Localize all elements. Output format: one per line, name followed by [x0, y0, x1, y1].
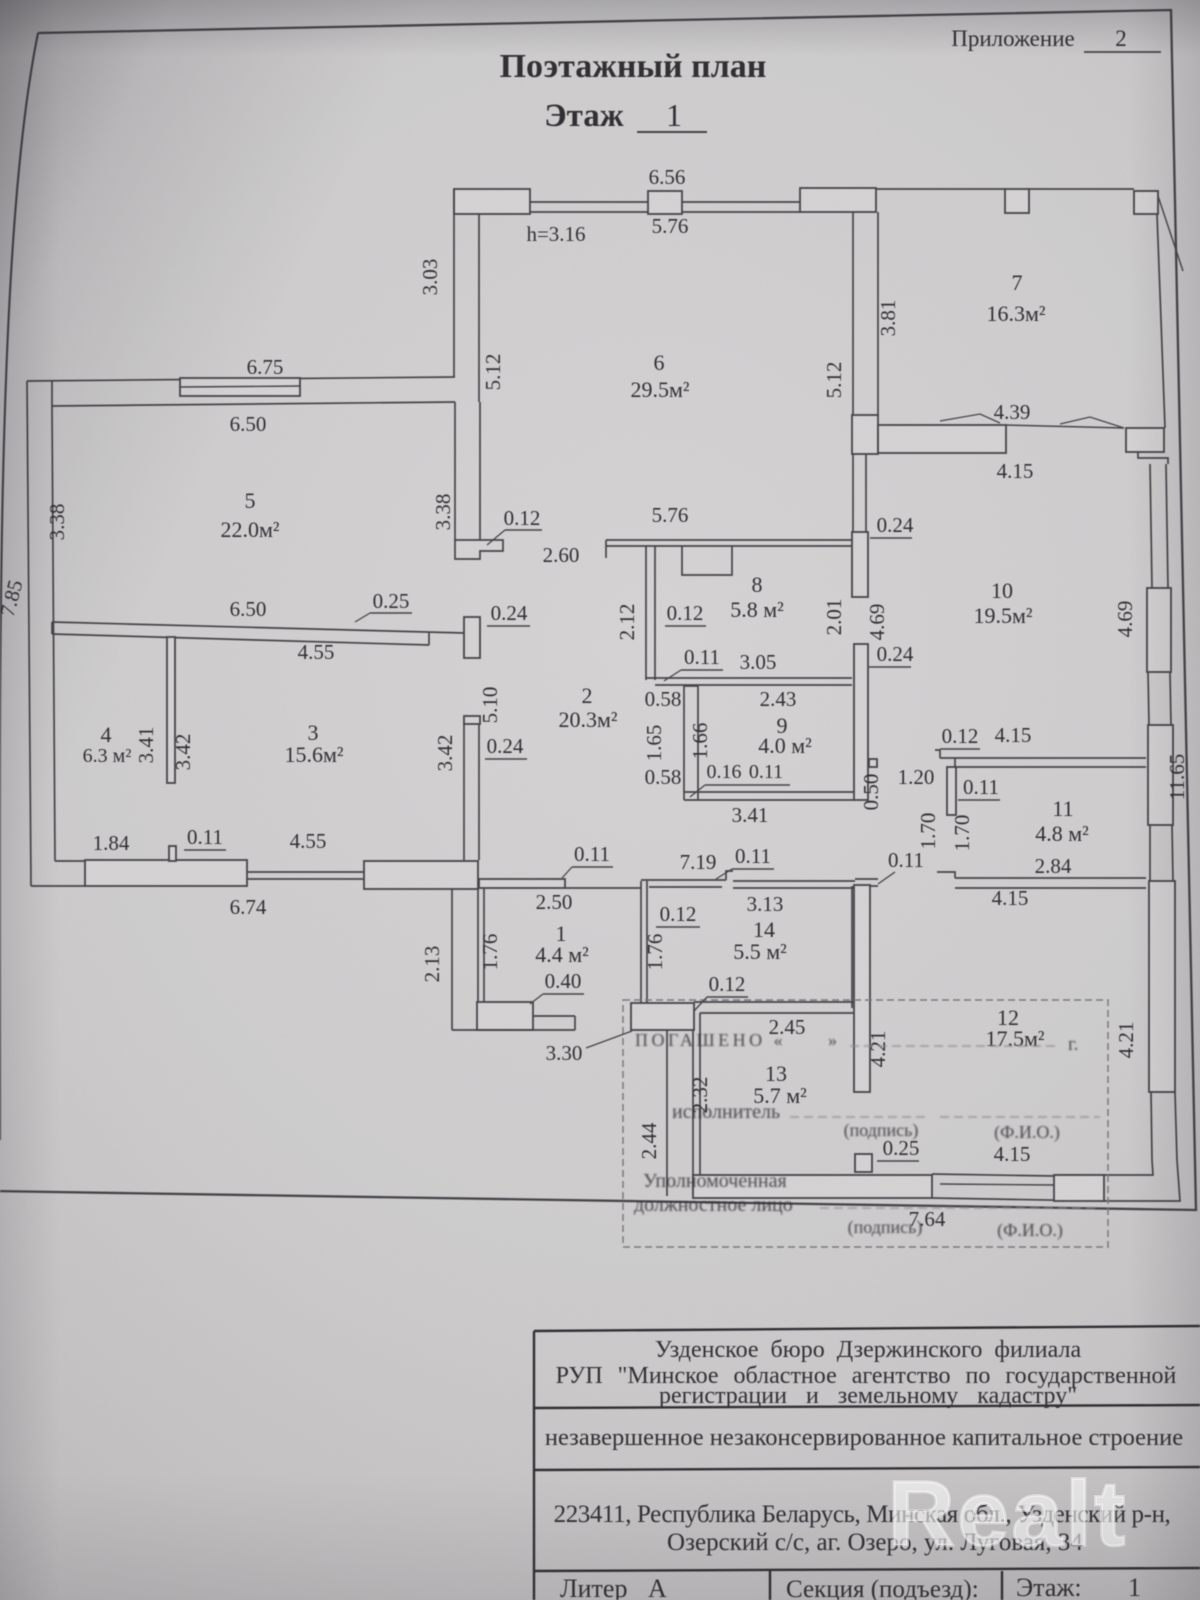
door jamb foot 0.12 step	[455, 540, 503, 559]
room1 left wall inner	[483, 889, 485, 1002]
thin line opening to right wall	[1006, 425, 1124, 428]
leader 0.40	[530, 994, 543, 1004]
room9 left wall inner	[697, 686, 699, 800]
corner pillar room7 top right	[1134, 191, 1158, 214]
window 2 line a	[1148, 672, 1149, 725]
wall room7-room10 solid	[878, 425, 1006, 453]
junction block bottom of room6-room7 wall	[852, 415, 878, 454]
leader 0.16	[690, 785, 705, 797]
room8 left wall inner	[654, 546, 656, 680]
underline 0.24	[487, 625, 530, 627]
bottom wall room3 solid	[364, 861, 478, 889]
underline 0.12 room11	[940, 748, 980, 750]
room 7 top wall line	[876, 188, 1005, 190]
room6 left wall outer	[453, 189, 455, 377]
room1 top wall line to divider	[565, 887, 641, 889]
step line 0.40	[533, 1015, 575, 1017]
table borders	[534, 1326, 1200, 1600]
window room6 top outer	[530, 201, 648, 203]
leader 3.30	[586, 1031, 632, 1048]
room13 top wall inner	[700, 1012, 855, 1014]
left exterior wall outer	[27, 381, 31, 886]
wall room11-room12 outer	[955, 877, 1146, 879]
wall room2-room14 inner line	[649, 886, 722, 888]
jog 0.11 on 7.19 wall	[726, 871, 733, 880]
room1 left wall outer	[477, 889, 479, 1002]
wall room6-room2 right line	[479, 402, 481, 540]
underline 0.24 mid	[869, 666, 911, 668]
end cap top of room3 right wall	[464, 716, 480, 724]
jog left end room11-12 wall	[937, 872, 955, 878]
leader 0.11 room1 top	[562, 867, 572, 878]
leader 0.11	[664, 670, 681, 681]
underline 0.12 room14	[656, 926, 700, 928]
bottom line y1030	[452, 1029, 575, 1031]
jamb	[954, 758, 956, 767]
underline 0.24b	[485, 758, 527, 760]
partition room4-room3	[167, 637, 175, 783]
stub wall left of room12 top b	[870, 885, 878, 887]
stamp dashed rectangle	[623, 1000, 1108, 1247]
door jamb at 429	[428, 632, 430, 645]
underline 0.11 stub	[184, 849, 226, 851]
underline 0.40	[543, 993, 584, 995]
inner line corner bottom-left	[55, 860, 85, 862]
bottom wall room4 solid	[85, 860, 247, 886]
left wing top wall inner line	[52, 402, 455, 406]
step left end room11 top wall	[935, 750, 940, 758]
room11 top wall inner	[955, 766, 1146, 768]
T pillar end room5-room3 wall	[464, 617, 480, 658]
right wall window outer line	[1150, 464, 1152, 588]
window 3 line b	[1172, 825, 1173, 881]
notch recess room8 top	[682, 546, 732, 575]
page frame left edge	[0, 33, 38, 1140]
wall segment between room6 and room7 top	[800, 188, 876, 212]
outer line corner bottom-left	[31, 885, 85, 887]
leader 0.25	[355, 613, 370, 622]
room 7 top wall line right	[1029, 188, 1134, 190]
wall room9 - room10 pillar	[854, 644, 868, 800]
outer corner bottom right	[1104, 1160, 1180, 1201]
partition room11-room14upper	[947, 767, 956, 815]
window room6 top inner	[530, 211, 648, 213]
leader 0.12 room14 bottom	[694, 997, 707, 1011]
underline 0.25 bottom	[877, 1160, 919, 1162]
room9 bottom wall bottom line	[684, 799, 854, 801]
underline 0.25	[370, 612, 412, 614]
wall room6-room2 left line	[454, 402, 456, 540]
room3 right wall right line	[478, 724, 480, 860]
window bottom band inner	[247, 878, 364, 880]
room9 bottom wall top line	[684, 791, 854, 793]
wall below 4.39 band right line	[865, 453, 867, 532]
dim squiggle 4.39 left	[940, 414, 1000, 423]
underline 0.11 719	[732, 868, 774, 870]
room7 right wall line	[1157, 214, 1165, 428]
right wall window inner line	[1166, 464, 1168, 588]
bottom wall outer line	[932, 1198, 1104, 1201]
pillar 0.25 on bottom wall	[855, 1154, 872, 1172]
photo grain overlay	[0, 0, 1, 1]
window 2 room6 top outer	[682, 201, 800, 203]
right wall pillar 1	[1147, 588, 1171, 672]
corner wall block room13 top-left	[631, 1003, 694, 1030]
window 4 line a	[1151, 1092, 1152, 1160]
underline 0.24 top	[870, 537, 912, 539]
room3 right wall left line	[463, 724, 465, 860]
wall room2 - room10 pillar upper	[852, 532, 868, 597]
room8 top wall inner	[606, 545, 852, 547]
bottom wall top line room12	[932, 1174, 1054, 1176]
inner corner bottom right	[1054, 1160, 1153, 1175]
room13 exterior wall left inner	[692, 1030, 694, 1196]
closure top	[684, 685, 698, 687]
wall room6-room7 right line	[877, 212, 879, 416]
underline 0.12 room14 bottom	[707, 996, 748, 998]
divider room1-room14 left line	[640, 881, 642, 1003]
left wing top wall outer line	[27, 377, 455, 381]
Realt watermark	[888, 1462, 1188, 1567]
underline 0.11	[681, 669, 723, 671]
underline 0.12	[505, 529, 542, 531]
wall room5-room3 top line	[52, 622, 464, 633]
bottom wall right block	[1054, 1175, 1104, 1201]
room8 bottom wall bottom line	[655, 684, 852, 686]
right wall top corner block	[1126, 428, 1164, 452]
window sill line room5	[180, 386, 300, 387]
room9 left wall outer	[683, 686, 685, 800]
room13 exterior wall left outer	[666, 1030, 668, 1196]
right wall long pillar	[1149, 881, 1175, 1092]
room8 bottom wall top line	[646, 677, 852, 679]
right wall pillar 2	[1148, 725, 1173, 825]
wall room11-room12 inner	[955, 887, 1146, 889]
room6 left wall inner	[478, 214, 480, 402]
underline 0.16 0.11	[705, 784, 790, 786]
small stub 0.50	[869, 759, 877, 767]
porch outer wall left	[451, 889, 453, 1030]
bottom wall room13 solid	[693, 1175, 932, 1198]
pillar between windows room 6 top	[648, 191, 682, 214]
leader 0.11 left	[878, 872, 895, 884]
0.11 stub above wall	[169, 846, 176, 861]
closure left end	[51, 381, 53, 406]
wall below 4.39 band left line	[852, 453, 854, 532]
room1 bottom wall solid	[477, 1002, 533, 1030]
window 3 line a	[1149, 825, 1151, 881]
room14 right wall line	[851, 886, 853, 1008]
room13 top wall outer	[694, 1001, 855, 1003]
window room5 top	[180, 378, 300, 396]
left exterior wall inner	[52, 406, 55, 861]
stub wall left of room12 top	[855, 878, 878, 880]
leader 0.12	[487, 530, 505, 545]
room14 top wall inner	[733, 887, 855, 889]
bottom window sill room12	[940, 1184, 1054, 1185]
leader	[716, 869, 732, 879]
closure	[51, 622, 53, 634]
room14 top wall outer	[733, 880, 855, 882]
tick at left end	[605, 540, 607, 558]
top wall solid segment left of window, room 6	[454, 189, 530, 214]
room13 left interior line	[699, 1013, 701, 1175]
window 2 line b	[1170, 672, 1171, 725]
underline 0.11 room11	[958, 799, 1000, 801]
wall room5-room3 bottom line	[52, 634, 429, 645]
wall room6-room7 left line	[852, 212, 854, 416]
divider room1-room14 right line	[646, 881, 648, 1003]
step closure	[574, 1016, 576, 1030]
window 4 line b	[1175, 1092, 1177, 1160]
underline 0.11 room1 top	[572, 866, 613, 868]
wall room2-room14 outer line	[641, 879, 726, 881]
crease diagonal near top right corner	[1158, 196, 1183, 271]
wall room14/13 - room12	[854, 885, 870, 1092]
room8 top wall outer 5.76	[606, 539, 852, 541]
dim squiggle 4.39 right	[1060, 417, 1124, 428]
pillar room7 top	[1005, 189, 1029, 213]
window 2 room6 top inner	[682, 211, 800, 213]
page frame border	[0, 10, 1196, 1210]
room11 top wall outer	[940, 757, 1146, 759]
underline under 1	[637, 131, 707, 133]
room1 top wall solid	[479, 879, 565, 888]
underline under 2	[1084, 51, 1161, 53]
room8 left wall outer	[645, 546, 647, 680]
window bottom band outer	[247, 871, 364, 873]
underline 0.12 room8	[665, 625, 706, 627]
step below corner block	[1138, 452, 1168, 464]
